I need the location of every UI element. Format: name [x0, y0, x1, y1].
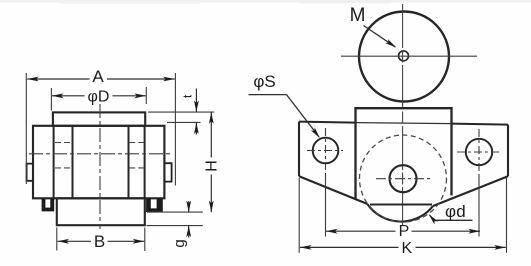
roller bottom arc (phi d) — [368, 204, 434, 221]
scan noise top strip — [0, 0, 531, 4]
K extension right — [506, 178, 508, 253]
view vertical center line — [402, 4, 404, 226]
bottom plate — [57, 198, 145, 225]
svg-text:A: A — [92, 67, 104, 86]
t extension line top (plate top) — [148, 111, 214, 113]
right hole vertical center line — [478, 129, 480, 175]
dimension phiD extension left — [50, 88, 52, 111]
dimension phiD line — [52, 95, 85, 97]
shaft hole — [390, 165, 417, 192]
phiS leader — [287, 95, 320, 137]
t dimension arrows — [195, 89, 197, 113]
hidden line upper left — [55, 142, 72, 144]
phid underline — [434, 219, 473, 221]
divider line left outer — [53, 126, 55, 199]
svg-text:t: t — [181, 94, 195, 98]
M leader — [364, 26, 396, 47]
B dimension line — [58, 240, 92, 242]
foot bottom extension line — [147, 211, 203, 213]
left tab — [27, 164, 34, 181]
hidden line lower right — [129, 167, 144, 169]
svg-text:φD: φD — [88, 89, 110, 106]
shaft horizontal center line — [376, 178, 433, 180]
svg-text:φS: φS — [253, 72, 275, 91]
vertical center line — [99, 104, 101, 229]
K dimension line — [300, 246, 399, 248]
roller hub circle — [399, 51, 409, 61]
right wing bottom slope — [433, 176, 508, 206]
svg-text:g: g — [171, 239, 188, 247]
left wing bottom slope — [299, 176, 368, 204]
divider line left inner — [72, 126, 74, 199]
P extension left — [325, 174, 327, 237]
dimension A extension left — [25, 73, 27, 184]
top plate — [53, 112, 145, 125]
hidden line lower left — [55, 167, 72, 169]
hidden line upper right — [129, 142, 144, 144]
svg-text:P: P — [399, 223, 410, 240]
svg-text:B: B — [94, 232, 105, 251]
phiS underline — [249, 94, 287, 96]
left wing hole — [313, 138, 339, 164]
right hole horizontal center line — [457, 151, 502, 153]
H dimension line — [210, 112, 212, 157]
dimension A line — [27, 78, 89, 80]
P extension right — [478, 175, 480, 237]
body outline — [33, 126, 164, 199]
left foot — [42, 198, 55, 211]
P dimension line — [326, 230, 396, 232]
divider line right outer — [144, 126, 146, 199]
phid leader arrow — [430, 215, 435, 220]
divider line right inner — [128, 126, 130, 199]
right wing hole — [466, 139, 492, 165]
dimension phiD extension right — [145, 87, 147, 104]
t extension line bottom (body top) — [167, 121, 201, 123]
svg-text:M: M — [350, 5, 366, 26]
B extension right — [144, 228, 146, 252]
bend line across (wing top edges) — [299, 122, 356, 123]
horizontal center line — [29, 153, 170, 155]
bracket bottom edge — [370, 204, 432, 206]
plate bottom extension line — [147, 225, 203, 227]
svg-text:H: H — [203, 160, 220, 172]
K extension left — [298, 178, 300, 253]
roller circle M — [359, 12, 449, 102]
left hole vertical center line — [325, 128, 327, 174]
svg-text:φd: φd — [445, 202, 466, 221]
right wing outer edge — [507, 125, 509, 177]
bracket center rect — [356, 108, 452, 199]
svg-text:K: K — [401, 240, 412, 257]
B extension left — [56, 228, 58, 251]
hidden roller circle (dashed) — [360, 135, 447, 222]
right foot — [146, 198, 163, 212]
right tab — [164, 163, 171, 181]
g dimension arrows — [188, 201, 190, 212]
dimension A extension right — [174, 73, 176, 186]
roller horizontal center line — [341, 55, 477, 57]
left hole horizontal center line — [307, 150, 343, 152]
left wing outer edge — [298, 122, 300, 177]
